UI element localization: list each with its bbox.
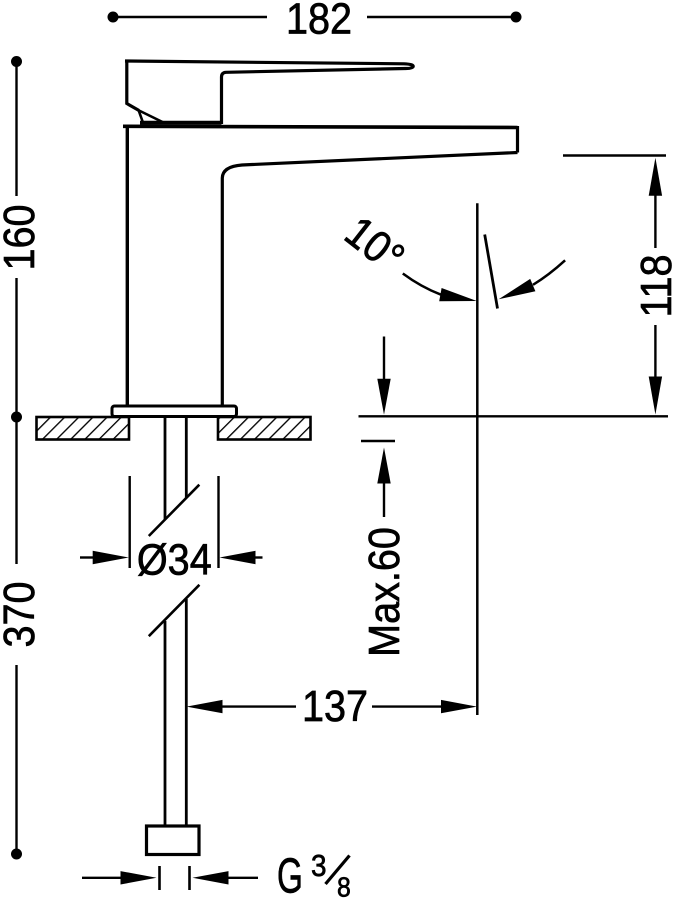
svg-text:Max.60: Max.60 [359, 527, 408, 657]
svg-text:118: 118 [631, 254, 674, 317]
svg-text:182: 182 [286, 0, 352, 43]
svg-text:G: G [277, 848, 303, 900]
svg-text:137: 137 [302, 681, 368, 730]
svg-text:160: 160 [0, 204, 43, 270]
svg-text:370: 370 [0, 581, 43, 647]
svg-text:Ø34: Ø34 [137, 535, 212, 584]
svg-text:3: 3 [311, 849, 327, 884]
svg-text:8: 8 [337, 871, 351, 900]
